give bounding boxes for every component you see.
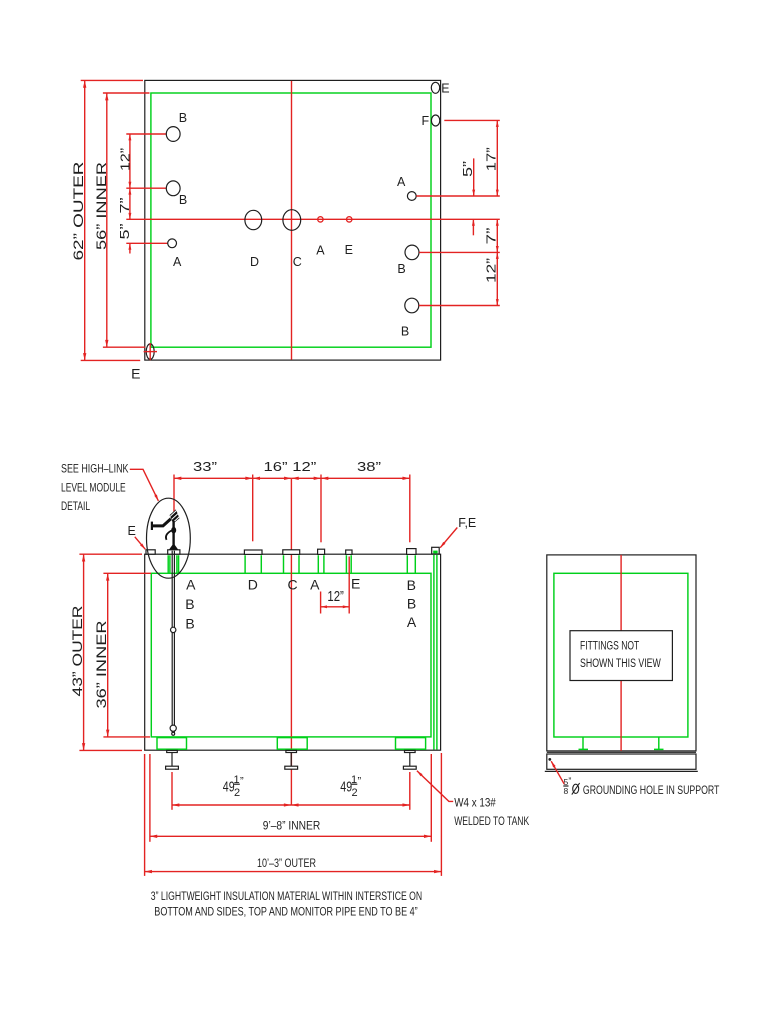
neck lines C xyxy=(284,555,300,573)
svg-text:B: B xyxy=(179,193,187,207)
svg-text:9’–8” INNER: 9’–8” INNER xyxy=(263,819,321,833)
svg-text:A: A xyxy=(310,577,320,593)
head seam green line 1 xyxy=(433,555,435,750)
pipe foot xyxy=(172,732,175,735)
leader from hole F xyxy=(444,119,500,121)
top dim line 16in xyxy=(253,477,292,479)
svg-text:”: ” xyxy=(568,776,571,786)
dim 36in bottom extension xyxy=(103,736,150,738)
ext line 49 left xyxy=(171,772,173,810)
ext line 9-8 right xyxy=(430,754,432,842)
dim 7in left vertical xyxy=(129,188,131,219)
grounding lug cross vertical xyxy=(149,343,151,360)
ENDVIEW xyxy=(545,555,720,797)
extension line monitor xyxy=(173,475,175,513)
hole B right 1 xyxy=(405,245,419,260)
svg-text:2: 2 xyxy=(234,787,240,799)
svg-text:A: A xyxy=(316,243,325,257)
support band bottom line xyxy=(545,770,698,772)
dim 49.5 left line xyxy=(172,804,291,806)
svg-text:38”: 38” xyxy=(357,459,381,474)
leg left xyxy=(166,750,179,769)
svg-text:12”: 12” xyxy=(118,148,133,171)
dim text 49.5 left xyxy=(223,774,244,799)
gauge flag hatched xyxy=(170,509,180,523)
ext line 10-3 right xyxy=(440,753,442,876)
svg-text:E: E xyxy=(441,82,449,96)
svg-text:BOTTOM AND SIDES, TOP AND MONI: BOTTOM AND SIDES, TOP AND MONITOR PIPE E… xyxy=(154,905,417,919)
hole A small (red) xyxy=(318,217,323,222)
dim 62in outer: bottom extension xyxy=(81,359,141,361)
tank inner shell (side view, green) xyxy=(151,573,431,737)
gauge arm xyxy=(152,519,171,526)
extension line A xyxy=(320,475,322,543)
hole F xyxy=(431,115,439,126)
dim 12in left vertical xyxy=(129,134,131,188)
svg-text:17”: 17” xyxy=(484,147,499,171)
leader line to hole B2 xyxy=(126,187,166,189)
svg-text:A: A xyxy=(397,175,406,189)
svg-text:56” INNER: 56” INNER xyxy=(94,162,109,250)
svg-text:W4 x 13#: W4 x 13# xyxy=(454,796,496,810)
svg-text:E: E xyxy=(345,243,353,257)
ext line 49 right xyxy=(409,772,411,810)
hole E top right corner xyxy=(431,82,439,93)
fitting C xyxy=(283,550,300,555)
pipe coupling upper xyxy=(171,627,176,632)
svg-text:”: ” xyxy=(358,776,362,788)
neck lines monitor xyxy=(168,555,178,573)
hole B1 xyxy=(166,127,180,142)
top dim line 12in xyxy=(291,477,321,479)
svg-text:8: 8 xyxy=(564,786,569,796)
leader from hole B right 2 xyxy=(419,305,500,307)
fitting FE green inner xyxy=(433,551,437,554)
dim 56in inner: bottom extension xyxy=(103,346,145,348)
hole A right xyxy=(407,192,416,201)
fittings note box xyxy=(570,631,672,681)
leader to balloon xyxy=(130,469,159,501)
gauge arm end cap xyxy=(151,522,153,530)
vertical centerline side view xyxy=(290,479,292,806)
fitting A xyxy=(318,549,325,554)
horizontal centerline xyxy=(126,218,500,220)
end view inner shell green xyxy=(554,573,688,737)
svg-text:B: B xyxy=(407,577,416,593)
svg-text:B: B xyxy=(185,596,194,612)
TOPVIEW xyxy=(71,80,500,381)
tank outer shell (top view) xyxy=(145,80,441,360)
dim 9-8 inner line xyxy=(150,835,431,837)
fitting E2 xyxy=(346,550,352,554)
top dim line 38in xyxy=(321,477,410,479)
svg-text:FITTINGS NOT: FITTINGS NOT xyxy=(580,639,640,653)
saddle middle xyxy=(277,738,307,750)
svg-text:B: B xyxy=(185,615,194,631)
svg-text:36” INNER: 36” INNER xyxy=(94,620,109,708)
dim 12in right vertical xyxy=(496,252,498,305)
svg-text:2: 2 xyxy=(351,787,357,799)
ext line 9-8 left xyxy=(149,754,151,842)
hole E small (red) xyxy=(347,217,352,222)
svg-text:12”: 12” xyxy=(483,258,498,283)
svg-text:5”: 5” xyxy=(460,161,475,177)
dim 5in left stub xyxy=(129,243,131,253)
neck lines E2 xyxy=(346,555,351,573)
svg-text:LEVEL MODULE: LEVEL MODULE xyxy=(61,480,126,494)
svg-text:C: C xyxy=(288,577,298,593)
end view centerline xyxy=(620,555,622,751)
dim 56in inner: vertical line xyxy=(106,93,108,347)
svg-text:7”: 7” xyxy=(117,198,132,214)
dim 12in A-E line xyxy=(321,606,350,608)
dim 10-3 outer line xyxy=(145,871,442,873)
fitting E left xyxy=(146,550,155,554)
fitting monitor xyxy=(168,550,180,554)
dim 62in outer: vertical line xyxy=(84,80,86,360)
leader E left xyxy=(135,537,146,550)
svg-text:E: E xyxy=(128,524,136,538)
dim 12in A-E: extension A xyxy=(320,592,322,614)
svg-text:”: ” xyxy=(240,776,244,788)
grounding fraction 5/8 xyxy=(563,776,571,796)
end support leg right xyxy=(654,737,664,749)
dim 62in outer: top extension xyxy=(81,79,143,81)
gauge stem xyxy=(172,521,174,549)
fitting B xyxy=(407,549,416,555)
svg-text:WELDED TO TANK: WELDED TO TANK xyxy=(454,814,529,828)
leader from hole B right 1 xyxy=(419,251,500,253)
svg-text:GROUNDING HOLE IN SUPPORT: GROUNDING HOLE IN SUPPORT xyxy=(583,783,720,797)
extension line B xyxy=(409,475,411,543)
tank bottom thick line xyxy=(547,751,696,753)
svg-text:B: B xyxy=(401,324,409,338)
svg-text:D: D xyxy=(250,255,259,269)
svg-text:F,E: F,E xyxy=(458,516,476,530)
neck lines A xyxy=(318,555,324,573)
svg-text:7”: 7” xyxy=(483,228,498,245)
dim 49.5 right line xyxy=(291,804,410,806)
top dim line 33in xyxy=(174,477,253,479)
SIDEVIEW xyxy=(61,459,529,876)
svg-text:B: B xyxy=(407,596,416,612)
svg-text:5”: 5” xyxy=(117,224,132,240)
dim 36in top extension xyxy=(103,572,151,574)
svg-text:B: B xyxy=(179,111,187,125)
head seam green line 2 xyxy=(436,555,438,750)
svg-text:A: A xyxy=(173,255,182,269)
hole B right 2 xyxy=(405,298,419,313)
grounding lug cross horizontal xyxy=(144,351,157,353)
gauge hook xyxy=(166,531,172,540)
detail balloon ellipse xyxy=(147,498,191,578)
leader F,E xyxy=(440,528,457,548)
hole A left xyxy=(168,239,177,248)
saddle right xyxy=(396,738,426,750)
monitor pipe left line xyxy=(171,551,173,736)
svg-text:SEE HIGH–LINK: SEE HIGH–LINK xyxy=(61,461,129,475)
svg-text:E: E xyxy=(351,576,360,592)
svg-text:33”: 33” xyxy=(193,459,217,474)
saddle left xyxy=(157,738,187,750)
dim 7in right vertical xyxy=(496,219,498,252)
svg-text:SHOWN THIS VIEW: SHOWN THIS VIEW xyxy=(580,656,661,670)
gauge valve body xyxy=(171,527,176,534)
leader from hole A right xyxy=(416,195,500,197)
dim 17in vertical xyxy=(496,120,498,196)
grounding hole dot xyxy=(548,758,551,761)
pipe coupling lower xyxy=(170,725,176,731)
dim 36in inner vertical xyxy=(107,573,109,737)
leader W4 xyxy=(417,771,453,802)
dim 56in inner: top extension xyxy=(103,92,150,94)
svg-text:A: A xyxy=(407,614,417,630)
leader line to hole B1 xyxy=(126,133,166,135)
svg-text:12”: 12” xyxy=(292,459,316,474)
dim text 49.5 right xyxy=(340,774,361,799)
NOTES xyxy=(151,889,422,919)
hole D xyxy=(245,210,262,229)
fitting FE corner xyxy=(432,547,440,554)
grounding text xyxy=(572,783,580,795)
svg-text:16”: 16” xyxy=(264,459,288,474)
tank outer shell (side view) xyxy=(145,554,441,750)
svg-text:C: C xyxy=(293,255,302,269)
dim 12in A-E: extension E xyxy=(348,557,350,614)
svg-text:E: E xyxy=(131,366,140,382)
end support leg left xyxy=(579,737,589,749)
tank inner shell (top view, green) xyxy=(151,93,431,347)
leg middle xyxy=(285,750,298,769)
dim 5in right upper stub xyxy=(473,158,475,196)
leader line to hole A left xyxy=(126,242,168,244)
svg-text:B: B xyxy=(397,262,405,276)
svg-text:43” OUTER: 43” OUTER xyxy=(70,605,85,696)
fitting D xyxy=(244,550,262,554)
support band xyxy=(547,754,696,769)
hole C xyxy=(283,210,301,231)
svg-text:A: A xyxy=(186,577,196,593)
svg-text:DETAIL: DETAIL xyxy=(61,499,90,513)
monitor pipe right line xyxy=(173,551,175,736)
leg right xyxy=(403,750,416,769)
svg-text:62” OUTER: 62” OUTER xyxy=(71,161,86,260)
dim 43in top extension xyxy=(79,553,142,555)
end view outer shell xyxy=(547,555,696,751)
grounding leader xyxy=(551,761,564,784)
neck lines D xyxy=(245,555,261,573)
hole B2 xyxy=(166,181,180,196)
dim 43in bottom extension xyxy=(79,749,142,751)
ext line 10-3 left xyxy=(144,754,146,876)
dim 5in right lower stub xyxy=(472,219,474,235)
svg-text:F: F xyxy=(421,114,429,128)
vertical centerline xyxy=(291,81,293,360)
gauge base xyxy=(169,543,178,549)
svg-text:3” LIGHTWEIGHT INSULATION MATE: 3” LIGHTWEIGHT INSULATION MATERIAL WITHI… xyxy=(151,889,422,903)
svg-text:D: D xyxy=(248,577,258,593)
dim 43in outer vertical xyxy=(83,554,85,750)
svg-text:12”: 12” xyxy=(327,588,344,605)
grounding lug E bottom left xyxy=(146,344,154,359)
neck lines B xyxy=(407,555,415,573)
svg-text:10’–3” OUTER: 10’–3” OUTER xyxy=(257,856,316,870)
extension line D xyxy=(252,475,254,542)
